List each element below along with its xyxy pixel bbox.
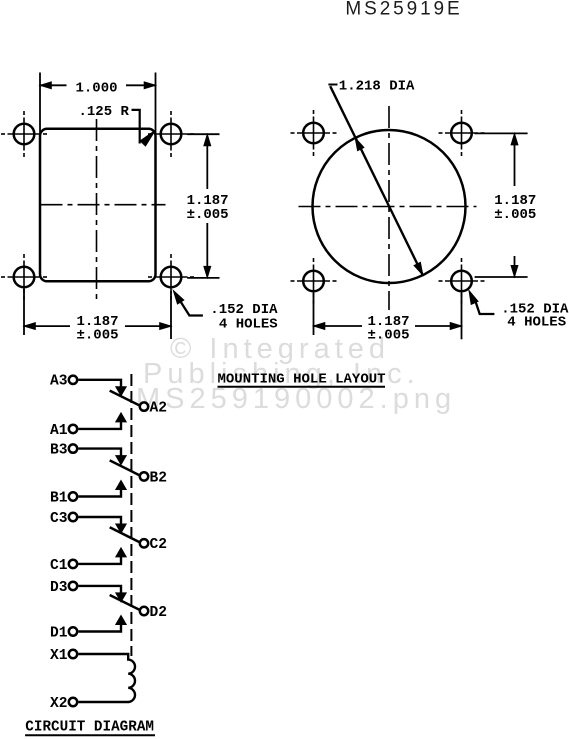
svg-text:.125 R: .125 R [79, 104, 130, 120]
svg-text:D2: D2 [150, 605, 168, 621]
svg-text:±.005: ±.005 [367, 327, 409, 343]
svg-text:4 HOLES: 4 HOLES [507, 315, 566, 331]
svg-text:±.005: ±.005 [76, 327, 118, 343]
svg-text:CIRCUIT DIAGRAM: CIRCUIT DIAGRAM [25, 719, 154, 735]
svg-text:X2: X2 [50, 696, 68, 712]
svg-text:B1: B1 [50, 490, 68, 506]
svg-text:4 HOLES: 4 HOLES [219, 317, 278, 333]
svg-text:D3: D3 [50, 580, 68, 596]
svg-text:D1: D1 [50, 625, 68, 641]
svg-text:A1: A1 [50, 423, 68, 439]
svg-text:A3: A3 [50, 374, 68, 390]
svg-text:MS25919E: MS25919E [345, 0, 462, 20]
svg-text:C3: C3 [50, 511, 68, 527]
svg-text:±.005: ±.005 [494, 207, 536, 223]
svg-text:B3: B3 [50, 443, 68, 459]
svg-text:X1: X1 [50, 648, 68, 664]
svg-text:MOUNTING HOLE LAYOUT: MOUNTING HOLE LAYOUT [218, 371, 386, 387]
svg-text:1.218 DIA: 1.218 DIA [339, 79, 415, 95]
svg-text:±.005: ±.005 [187, 207, 229, 223]
svg-text:A2: A2 [150, 401, 168, 417]
svg-text:C1: C1 [50, 558, 68, 574]
svg-text:1.000: 1.000 [75, 80, 117, 96]
svg-text:C2: C2 [150, 537, 168, 553]
svg-text:B2: B2 [150, 470, 168, 486]
